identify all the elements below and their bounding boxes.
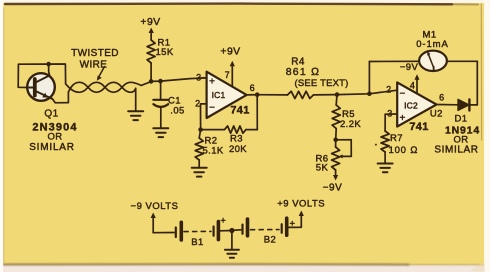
svg-text:2.2K: 2.2K	[340, 119, 361, 130]
resistor R4	[288, 91, 314, 98]
label U2	[430, 109, 443, 120]
wire feedback bottom right	[246, 129, 257, 131]
svg-text:IC2: IC2	[404, 101, 418, 111]
ground below R2	[192, 168, 207, 177]
node R5-R6 junction	[333, 138, 338, 143]
label 1N914	[445, 125, 480, 137]
wire node to IC1 pin3	[151, 78, 207, 82]
label B1 plus	[220, 216, 226, 227]
node C1 junction	[158, 79, 163, 84]
label OR (Q1)	[47, 132, 62, 143]
label D1	[455, 114, 468, 125]
power +9V arrow (IC1 pin7)	[220, 46, 240, 87]
svg-text:+: +	[220, 216, 226, 227]
wire R6 wiper loop	[336, 140, 352, 159]
svg-text:2: 2	[386, 85, 391, 95]
label R6	[316, 154, 329, 174]
label 0-1mA	[416, 39, 448, 50]
node battery center	[229, 228, 234, 233]
label Q1	[44, 109, 58, 120]
label B1	[191, 237, 203, 248]
battery B1	[176, 222, 219, 240]
svg-text:100 Ω: 100 Ω	[389, 145, 419, 156]
label SIMILAR (D1)	[434, 145, 478, 156]
twisted wire conductor A	[66, 82, 152, 93]
svg-text:+: +	[209, 77, 215, 88]
node R4-R5 junction	[335, 92, 340, 97]
svg-text:+9V: +9V	[140, 16, 160, 28]
wire R1 to node	[150, 63, 152, 81]
wire B1 to ground node	[220, 230, 232, 232]
svg-text:4: 4	[410, 81, 415, 91]
svg-text:R7: R7	[390, 133, 403, 144]
svg-text:0-1mA: 0-1mA	[416, 39, 448, 50]
label R5	[340, 109, 361, 130]
wire meter top left	[369, 60, 419, 62]
twisted wire conductor B	[68, 82, 135, 111]
svg-text:−9 VOLTS: −9 VOLTS	[131, 201, 179, 212]
wire IC1 pin3 stub	[202, 77, 207, 79]
label IC1 pin7	[225, 70, 230, 80]
power -9V arrow (R6)	[333, 170, 338, 181]
node speckle near R7	[375, 144, 377, 146]
label R4 value	[286, 66, 321, 78]
svg-text:15K: 15K	[156, 47, 174, 58]
border frame left	[0, 0, 4, 272]
svg-text:SIMILAR: SIMILAR	[29, 142, 75, 153]
svg-text:5.1K: 5.1K	[203, 146, 224, 157]
wire IC2 pin3	[385, 113, 397, 115]
node meter branch	[367, 92, 372, 97]
op-amp IC1 body	[207, 72, 250, 118]
capacitor C1	[153, 81, 168, 128]
svg-text:20K: 20K	[229, 144, 247, 155]
wire Q1 emitter lead	[53, 92, 69, 103]
power +9V arrow (R1)	[149, 28, 154, 41]
svg-text:Q1: Q1	[44, 109, 58, 120]
wire Q1 base-collector loop	[18, 64, 65, 88]
node R1 junction	[149, 79, 154, 84]
svg-text:+: +	[399, 113, 405, 124]
diode D1	[458, 99, 469, 110]
wire B2 to +9V arrow	[289, 215, 302, 228]
label R1 value	[156, 38, 174, 59]
label +9V (R1)	[140, 16, 160, 28]
wire meter left riser	[368, 62, 370, 94]
resistor R6	[332, 140, 340, 170]
wire feedback vertical	[256, 95, 258, 130]
label IC2 pin6	[439, 93, 444, 103]
svg-text:B2: B2	[264, 235, 276, 246]
svg-text:741: 741	[230, 105, 249, 117]
svg-text:7: 7	[225, 70, 230, 80]
ground below R7	[378, 164, 393, 173]
label IC1 pin6	[250, 83, 255, 93]
svg-text:+9 VOLTS: +9 VOLTS	[277, 199, 325, 210]
ground battery center	[225, 231, 239, 258]
label R4	[291, 57, 305, 68]
label OR (D1)	[453, 135, 468, 146]
ground below C1	[153, 128, 168, 137]
wire node to B2	[232, 229, 241, 232]
wire meter right riser	[476, 61, 478, 105]
svg-text:861 Ω: 861 Ω	[286, 66, 321, 78]
label TWISTED WIRE	[71, 48, 119, 81]
wire R4 to node	[314, 94, 338, 96]
svg-text:−: −	[399, 89, 405, 100]
label R2	[203, 136, 224, 157]
label IC2 pin2	[386, 85, 391, 95]
label B2	[264, 235, 276, 246]
wire IC1 output	[247, 94, 258, 96]
ground twisted-pair return	[128, 111, 143, 120]
label -9 VOLTS	[131, 201, 179, 212]
svg-text:1N914: 1N914	[445, 125, 480, 137]
label C1	[168, 96, 185, 117]
label B2 plus	[290, 219, 296, 230]
svg-text:OR: OR	[47, 132, 62, 143]
wire pin2 riser	[201, 104, 207, 130]
svg-text:IC1: IC1	[212, 90, 226, 100]
power +9V arrow (battery)	[299, 211, 304, 217]
battery B2	[243, 218, 287, 236]
svg-text:+9V: +9V	[220, 46, 240, 58]
label IC2 pin3	[387, 109, 392, 119]
border frame top	[5, 2, 478, 5]
label M1	[423, 30, 437, 41]
border frame right	[481, 0, 490, 272]
svg-text:3: 3	[196, 73, 201, 83]
label -9V (R6)	[323, 183, 343, 194]
label 2N3904	[32, 122, 77, 134]
svg-text:D1: D1	[455, 114, 468, 125]
label IC1 pin2	[195, 99, 200, 109]
svg-text:−9V: −9V	[323, 183, 343, 194]
resistor R2	[195, 130, 203, 168]
label +9 VOLTS	[277, 199, 325, 210]
power -9V arrow (IC2 pin4)	[400, 62, 420, 93]
svg-text:6: 6	[439, 93, 444, 103]
node IC1 output	[255, 92, 260, 97]
svg-text:6: 6	[250, 83, 255, 93]
power -9V arrow (battery)	[151, 213, 156, 233]
resistor R7	[381, 114, 389, 163]
wire R4 node to IC2 pin2	[337, 90, 397, 94]
wire D1 cathode	[469, 104, 477, 106]
transistor Q1	[27, 73, 55, 101]
wire Q1 collector lead	[49, 64, 50, 75]
svg-text:R3: R3	[230, 134, 243, 145]
resistor R5	[332, 95, 340, 140]
svg-text:−: −	[209, 103, 215, 114]
resistor R1	[147, 40, 155, 63]
meter M1	[419, 51, 447, 71]
node Q1 collector junction	[46, 62, 51, 67]
resistor R3	[225, 126, 247, 133]
label IC2 pin4	[410, 81, 415, 91]
border frame bottom	[0, 258, 490, 272]
svg-text:TWISTED: TWISTED	[71, 48, 119, 59]
wire IC1 out to R4	[257, 94, 287, 96]
node IC1 pin2 junction	[198, 127, 203, 132]
wire meter top right	[447, 60, 477, 62]
label R3	[229, 134, 247, 156]
svg-text:(SEE TEXT): (SEE TEXT)	[294, 78, 348, 89]
label SIMILAR (Q1)	[29, 142, 75, 153]
label R7	[389, 133, 419, 156]
svg-text:B1: B1	[191, 237, 203, 248]
wire feedback bottom left	[201, 129, 225, 131]
svg-text:741: 741	[409, 121, 428, 133]
wire IC2 output	[437, 104, 459, 106]
svg-text:−9V: −9V	[400, 62, 419, 73]
svg-text:SIMILAR: SIMILAR	[434, 145, 478, 156]
label IC1 pin3	[196, 73, 201, 83]
svg-text:5K: 5K	[316, 163, 329, 174]
svg-text:.05: .05	[170, 106, 184, 117]
wire to B1 negative	[153, 232, 174, 234]
label R4 see-text	[294, 78, 348, 89]
op-amp IC2 body	[397, 82, 436, 133]
svg-text:U2: U2	[430, 109, 443, 120]
